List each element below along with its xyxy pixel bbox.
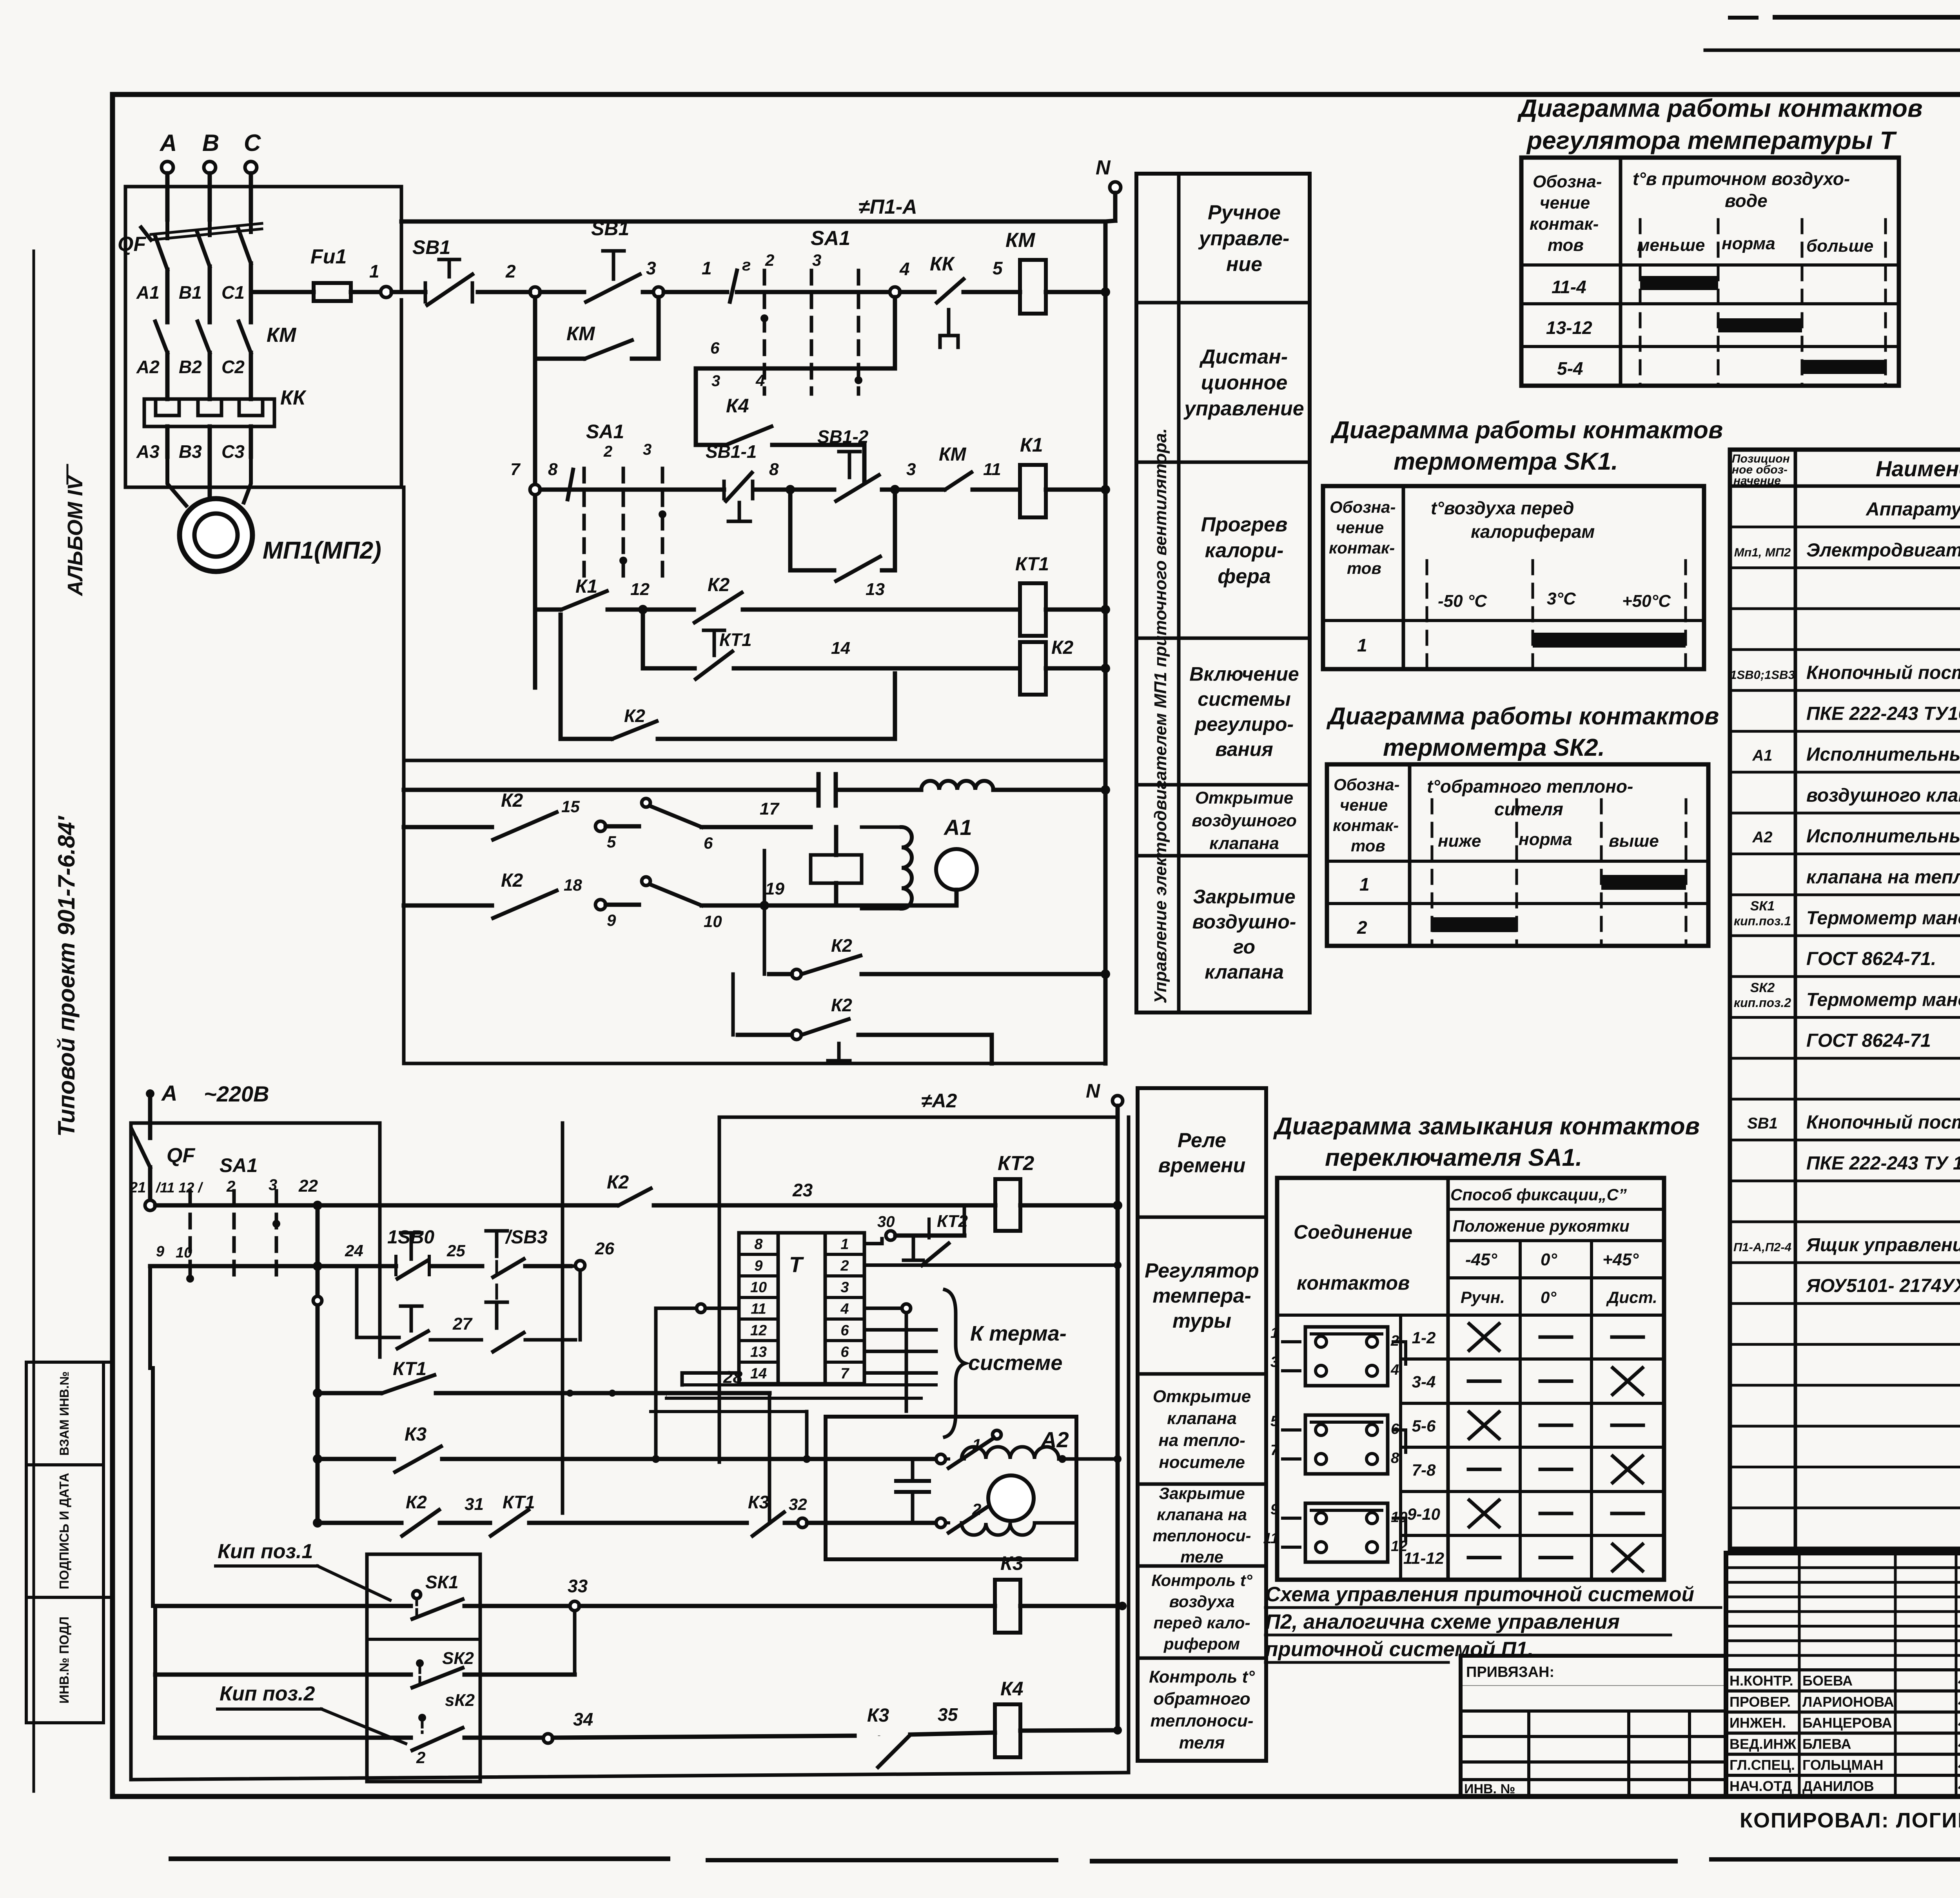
svg-text:35: 35 [938,1704,958,1725]
svg-text:9: 9 [607,911,616,929]
svg-text:В3: В3 [179,441,202,462]
selector SA1 closing diagram table [1277,1178,1664,1580]
svg-text:≠П1-А: ≠П1-А [858,196,917,218]
svg-text:4: 4 [899,259,910,279]
svg-text:норма: норма [1519,830,1572,849]
svg-text:К3: К3 [1000,1552,1024,1574]
svg-text:В1: В1 [179,282,202,303]
svg-text:г: г [742,256,751,274]
svg-text:Диаграмма работы контактов: Диаграмма работы контактов [1326,703,1719,730]
svg-text:К1: К1 [575,576,597,597]
svg-text:22: 22 [298,1176,318,1196]
svg-text:28: 28 [723,1368,742,1387]
svg-text:Электродвигатель 4А100LВ6; 2,2: Электродвигатель 4А100LВ6; 2,2 КВТ,~380В [1806,540,1960,561]
contact diagram table T [1521,158,1899,386]
A2 capacitor [896,1479,929,1483]
svg-text:вания: вания [1215,739,1273,760]
contact diagram table SK1 [1323,486,1704,669]
svg-text:К4: К4 [726,395,749,417]
svg-text:теплоноси-: теплоноси- [1152,1526,1251,1545]
wire rung1 to SA1 [664,290,727,294]
svg-text:26: 26 [595,1239,614,1258]
wire 19 drop [763,851,766,905]
svg-text:3: 3 [711,372,720,390]
svg-text:калориферам: калориферам [1471,521,1595,542]
temperature regulator T [739,1233,778,1384]
svg-text:Контроль t°: Контроль t° [1151,1571,1253,1590]
node 3a junction [890,485,900,494]
svg-text:SВ1: SВ1 [412,236,450,258]
svg-text:регулятора температуры Т: регулятора температуры Т [1526,126,1897,154]
power circuit enclosure [125,187,401,487]
svg-text:15: 15 [561,797,580,816]
svg-text:кип.поз.2: кип.поз.2 [1734,996,1791,1010]
svg-text:3: 3 [840,1279,849,1296]
svg-text:ЯОУ5101- 2174УХЛ4: ЯОУ5101- 2174УХЛ4 [1806,1276,1960,1296]
svg-text:контак-: контак- [1530,214,1599,234]
svg-text:теплоноси-: теплоноси- [1150,1711,1253,1730]
svg-text:3-4: 3-4 [1412,1373,1436,1391]
svg-text:К2: К2 [708,575,730,595]
svg-text:чение: чение [1540,193,1590,212]
svg-text:БАНЦЕРОВА: БАНЦЕРОВА [1802,1715,1892,1731]
svg-text:13: 13 [750,1344,767,1361]
svg-text:2: 2 [1390,1333,1399,1349]
svg-text:/SВ3: /SВ3 [505,1227,548,1248]
svg-text:Дистан-: Дистан- [1199,346,1288,368]
svg-text:больше: больше [1806,236,1873,256]
function table upper [1136,174,1310,1013]
svg-text:ДАНИЛОВ: ДАНИЛОВ [1802,1778,1874,1794]
svg-text:носителе: носителе [1159,1453,1245,1472]
neutral terminal N lower [1112,1096,1123,1106]
node 4 [890,287,900,297]
svg-text:9: 9 [1270,1501,1279,1518]
svg-text:1SВ0;1SВ3: 1SВ0;1SВ3 [1730,668,1795,682]
svg-text:N: N [1096,156,1111,179]
svg-text:34: 34 [573,1709,593,1729]
svg-text:А3: А3 [136,441,160,462]
svg-text:2: 2 [840,1258,849,1274]
node 2 [530,287,540,297]
actuator electromagnet arcs [902,827,912,909]
enclosure A2 top [719,1116,1118,1119]
svg-text:QF: QF [118,233,146,256]
svg-text:/11 12 /: /11 12 / [155,1179,203,1196]
svg-text:выше: выше [1609,831,1659,851]
node 34 [543,1734,553,1743]
svg-text:А: А [159,130,177,156]
svg-text:клапана: клапана [1209,834,1279,853]
svg-text:32: 32 [789,1495,807,1513]
svg-text:Кнопочный пост управления: Кнопочный пост управления [1806,662,1960,683]
svg-text:Типовой проект 901-7-6.84′: Типовой проект 901-7-6.84′ [53,815,80,1137]
svg-text:9-10: 9-10 [1407,1505,1440,1523]
node 5 lower [595,821,606,831]
svg-text:К2: К2 [406,1492,427,1512]
svg-text:перед кало-: перед кало- [1153,1613,1250,1632]
svg-text:t°обратного теплоно-: t°обратного теплоно- [1427,776,1633,797]
svg-text:П1-А,П2-4: П1-А,П2-4 [1733,1240,1791,1254]
svg-text:2: 2 [1357,917,1367,938]
contact diagram table SK2 [1327,764,1708,946]
svg-text:2: 2 [603,443,612,460]
svg-text:чение: чение [1336,518,1384,537]
svg-text:Прогрев: Прогрев [1201,514,1288,536]
svg-text:1: 1 [840,1236,849,1253]
svg-text:ПОДПИСЬ И ДАТА: ПОДПИСЬ И ДАТА [57,1473,71,1589]
svg-text:К3: К3 [867,1705,889,1726]
svg-text:6: 6 [1391,1421,1399,1437]
svg-text:КТ2: КТ2 [998,1152,1034,1175]
svg-text:контактов: контактов [1297,1272,1410,1294]
svg-text:ГОСТ 8624-71: ГОСТ 8624-71 [1806,1031,1931,1051]
thermometer box SK [367,1554,480,1782]
time contact KT2 [886,1231,895,1240]
svg-text:12: 12 [750,1323,767,1339]
svg-text:КМ: КМ [1005,229,1036,252]
svg-text:8: 8 [769,460,779,479]
svg-text:1: 1 [1270,1325,1279,1341]
left rail upper ladder [533,359,537,688]
svg-text:К2: К2 [501,790,523,811]
svg-text:фера: фера [1218,565,1271,588]
svg-text:контак-: контак- [1329,539,1395,557]
svg-text:термометра SK1.: термометра SK1. [1394,448,1618,475]
svg-text:Исполнительный механизм: Исполнительный механизм [1806,744,1960,765]
svg-text:ниже: ниже [1438,831,1481,851]
svg-text:+45°: +45° [1602,1250,1639,1269]
svg-text:SК1: SК1 [425,1572,459,1592]
svg-text:А1: А1 [1752,747,1772,764]
svg-text:БОЕВА: БОЕВА [1802,1673,1853,1689]
svg-text:12: 12 [1391,1538,1407,1555]
svg-text:К4: К4 [1000,1678,1024,1700]
svg-text:6: 6 [840,1323,849,1339]
svg-text:К терма-: К терма- [970,1322,1067,1345]
svg-text:К2: К2 [831,995,852,1015]
svg-text:норма: норма [1722,234,1775,253]
svg-text:воздушного: воздушного [1192,811,1297,830]
svg-text:В2: В2 [179,357,202,377]
enclosure 1435 drop [561,1123,564,1513]
svg-text:ПКЕ 222-243 ТУ 16.526.217-78: ПКЕ 222-243 ТУ 16.526.217-78 [1806,1153,1960,1174]
function table lower [1138,1088,1266,1761]
svg-text:Исполнительный механизм: Исполнительный механизм [1806,826,1960,847]
svg-text:ИНЖЕН.: ИНЖЕН. [1730,1715,1786,1731]
svg-text:11-4: 11-4 [1552,277,1586,297]
selector SA1 upper dashed poles [763,270,766,394]
svg-text:БЛЕВА: БЛЕВА [1802,1736,1851,1752]
svg-text:КМ: КМ [267,324,297,347]
svg-text:Термометр манометрический ТПГ-: Термометр манометрический ТПГ-СК [1806,989,1960,1010]
terminal A 220V [146,1089,154,1098]
svg-text:7: 7 [1270,1442,1279,1459]
svg-text:2: 2 [416,1748,425,1767]
svg-text:го: го [1233,936,1255,958]
svg-text:Дист.: Дист. [1606,1288,1657,1306]
position relay box A1 [811,855,862,883]
svg-text:11-12: 11-12 [1403,1549,1444,1568]
svg-text:13: 13 [866,580,885,599]
svg-text:термометра SК2.: термометра SК2. [1383,734,1605,761]
bus2 buttons row [150,1264,396,1268]
svg-text:Соединение: Соединение [1294,1221,1412,1243]
svg-text:клапана: клапана [1167,1409,1237,1428]
svg-text:Кип поз.2: Кип поз.2 [220,1682,315,1705]
wire node12 down [641,615,645,668]
svg-text:3: 3 [906,460,916,479]
svg-text:КТ1: КТ1 [719,630,752,650]
svg-text:10: 10 [704,912,722,931]
node 22 junction [313,1201,322,1210]
rail 810 markers [313,1388,322,1398]
phase terminal B [204,161,216,173]
svg-text:калори-: калори- [1205,539,1284,562]
bypass row 27 contacts [355,1266,359,1337]
svg-text:К2: К2 [831,935,852,956]
relay coil K4 [995,1704,1020,1757]
bus1 220v [155,1203,617,1208]
svg-text:11: 11 [751,1301,766,1317]
svg-text:SА1: SА1 [811,227,850,250]
svg-text:Мп1, МП2: Мп1, МП2 [1734,545,1791,559]
svg-text:системы: системы [1198,688,1290,710]
svg-text:~220В: ~220В [204,1081,269,1106]
svg-text:Диаграмма замыкания контактов: Диаграмма замыкания контактов [1273,1113,1700,1140]
svg-text:КМ: КМ [566,323,595,345]
node 3 [653,287,664,297]
motor МП1(МП2) [180,499,252,572]
svg-text:Управление электродвигателем М: Управление электродвигателем МП1 приточн… [1151,428,1170,1004]
svg-text:5-4: 5-4 [1557,358,1583,379]
A2 changeover 2 [993,1495,1001,1504]
svg-text:12: 12 [630,580,650,599]
svg-text:3°С: 3°С [1547,589,1576,608]
svg-text:контак-: контак- [1333,816,1399,835]
svg-text:К3: К3 [405,1424,427,1445]
svg-text:t°воздуха перед: t°воздуха перед [1431,498,1574,518]
svg-text:10: 10 [1391,1509,1407,1526]
svg-text:чение: чение [1340,796,1388,814]
svg-text:19: 19 [765,879,784,898]
svg-text:тов: тов [1548,236,1584,255]
svg-text:воздушно-: воздушно- [1192,911,1296,933]
A2 supply top arcs [962,1457,964,1461]
title block [1726,1553,1960,1796]
svg-text:А2: А2 [136,357,160,377]
svg-text:обратного: обратного [1153,1689,1250,1708]
node 9 lower [595,900,606,910]
A2 changeover 1 [993,1430,1001,1439]
svg-text:П2, аналогична схеме управлени: П2, аналогична схеме управления [1265,1610,1620,1633]
scan bottom edge [169,1856,670,1861]
svg-text:МП1(МП2): МП1(МП2) [263,537,381,564]
svg-text:Ручное: Ручное [1208,201,1281,224]
brace to thermosystem [945,1290,965,1437]
svg-text:К2: К2 [607,1172,629,1193]
A2 wiring [874,1457,896,1461]
inventory stamp boxes [26,1362,103,1723]
svg-text:меньше: меньше [1637,236,1705,255]
svg-text:18: 18 [564,876,582,894]
svg-text:SК2: SК2 [442,1649,474,1668]
svg-text:С1: С1 [221,282,245,303]
svg-text:N: N [1086,1080,1100,1102]
svg-text:31: 31 [465,1495,484,1514]
svg-text:3: 3 [812,251,821,269]
page top border line [1705,49,1960,52]
svg-text:А1: А1 [943,815,972,840]
svg-text:Обозна-: Обозна- [1330,498,1396,516]
svg-text:Обозна-: Обозна- [1533,172,1602,191]
svg-text:С3: С3 [221,441,245,462]
svg-text:К2: К2 [1051,637,1074,658]
actuator lamp A1 [936,849,977,890]
svg-text:-50 °С: -50 °С [1438,592,1487,611]
svg-text:24: 24 [345,1241,363,1260]
svg-text:Fu1: Fu1 [310,245,347,268]
svg-text:8: 8 [754,1236,763,1253]
svg-text:17: 17 [760,799,780,818]
svg-text:ИНВ.№ ПОДЛ: ИНВ.№ ПОДЛ [57,1617,71,1704]
node 33 [570,1601,579,1611]
svg-text:10: 10 [750,1279,767,1296]
svg-text:14: 14 [831,639,850,658]
svg-text:5: 5 [993,258,1003,278]
T block wiring left [706,1306,739,1310]
svg-text:К2: К2 [501,870,523,891]
svg-text:ПКЕ 222-243 ТУ16-526-217-78: ПКЕ 222-243 ТУ16-526-217-78 [1806,703,1960,724]
svg-text:23: 23 [792,1180,813,1200]
svg-text:t°в приточном воздухо-: t°в приточном воздухо- [1633,169,1850,189]
svg-text:НАЧ.ОТД: НАЧ.ОТД [1730,1778,1792,1794]
svg-text:Положение рукоятки: Положение рукоятки [1453,1217,1630,1235]
svg-text:клапана на: клапана на [1157,1505,1247,1524]
time relay coil KT2 [995,1179,1020,1231]
svg-text:1: 1 [1359,874,1370,895]
svg-text:4: 4 [1390,1362,1399,1378]
svg-text:АЛЬБОМ IV: АЛЬБОМ IV [64,475,87,597]
phase terminal C [245,161,257,173]
svg-text:В: В [202,130,219,156]
relay coil K2 [1020,642,1046,695]
svg-text:Способ фиксации„С”: Способ фиксации„С” [1450,1185,1627,1204]
svg-text:25: 25 [446,1241,465,1260]
svg-text:1: 1 [702,258,712,278]
svg-text:Диаграмма работы контактов: Диаграмма работы контактов [1517,94,1923,122]
left rail lower [148,1266,152,1368]
svg-text:10: 10 [176,1245,192,1261]
svg-text:1-2: 1-2 [1412,1328,1436,1347]
svg-text:≠А2: ≠А2 [921,1090,957,1112]
svg-text:сителя: сителя [1494,799,1563,819]
svg-text:4: 4 [840,1301,849,1317]
svg-text:КМ: КМ [939,444,967,465]
node 21 terminal [145,1200,155,1210]
lower enclosure bottom [131,1773,1129,1780]
svg-text:+50°С: +50°С [1622,592,1671,611]
svg-text:воде: воде [1725,191,1768,211]
svg-text:13-12: 13-12 [1546,318,1592,338]
svg-text:ГЛ.СПЕЦ.: ГЛ.СПЕЦ. [1730,1757,1795,1773]
changeover contact upper A1 [642,798,650,807]
svg-text:управление: управление [1183,397,1304,420]
svg-text:ние: ние [1226,253,1262,276]
motor leads [167,457,186,506]
svg-text:5: 5 [607,833,616,851]
svg-text:ИНВ. №: ИНВ. № [1464,1782,1515,1796]
svg-text:8: 8 [1391,1450,1399,1466]
button bypass contact [788,495,793,570]
svg-text:КТ1: КТ1 [1015,554,1049,575]
svg-text:9: 9 [754,1258,762,1274]
svg-text:теле: теле [1180,1548,1223,1566]
svg-text:9: 9 [156,1243,164,1260]
svg-text:ГОСТ 8624-71.: ГОСТ 8624-71. [1806,949,1936,969]
svg-text:системе: системе [968,1351,1062,1375]
svg-text:воздуха: воздуха [1169,1592,1235,1611]
svg-text:6: 6 [710,339,720,357]
svg-text:1: 1 [369,261,379,281]
svg-text:на тепло-: на тепло- [1158,1431,1245,1450]
svg-text:Т: Т [789,1252,804,1277]
svg-text:начение: начение [1733,474,1781,487]
node 12 junction [638,605,648,614]
svg-text:рифером: рифером [1163,1635,1240,1653]
svg-text:SВ1-2: SВ1-2 [817,426,869,447]
svg-text:Контроль t°: Контроль t° [1149,1667,1255,1686]
svg-text:4: 4 [755,371,765,390]
svg-text:темпера-: темпера- [1152,1285,1251,1307]
svg-text:11: 11 [1263,1530,1279,1547]
svg-text:21: 21 [129,1179,146,1196]
svg-text:С: С [244,130,261,156]
svg-text:ПРИВЯЗАН:: ПРИВЯЗАН: [1466,1664,1554,1680]
svg-text:11: 11 [983,460,1001,479]
svg-text:Кнопочный пост управления: Кнопочный пост управления [1806,1112,1960,1133]
neutral rail upper [1103,221,1108,1063]
actuator block A2 [826,1417,1076,1559]
svg-text:Закрытие: Закрытие [1159,1484,1245,1502]
bus P1-A top [401,220,1105,224]
svg-text:Обозна-: Обозна- [1334,775,1399,794]
svg-text:Включение: Включение [1189,663,1299,685]
lower enclosure top [131,1121,380,1125]
wire node2 down [533,297,537,359]
wire connector circle [313,1296,322,1305]
svg-text:ВЕД.ИНЖ: ВЕД.ИНЖ [1730,1736,1797,1752]
svg-text:КТ1: КТ1 [393,1359,426,1379]
T block wiring right [864,1242,882,1245]
svg-text:SК1: SК1 [1750,899,1775,914]
svg-text:8: 8 [548,460,558,479]
svg-text:30: 30 [877,1213,895,1230]
svg-text:SА1: SА1 [220,1154,258,1176]
svg-text:-45°: -45° [1465,1250,1497,1269]
changeover contact lower A1 [642,877,650,885]
svg-text:Открытие: Открытие [1153,1387,1251,1406]
svg-text:А1: А1 [136,282,160,303]
svg-text:Термометр манометрический ТПГ-: Термометр манометрический ТПГ-СК [1806,908,1960,929]
svg-text:5-6: 5-6 [1412,1417,1436,1435]
svg-text:Аппаратура по месту.: Аппаратура по месту. [1866,499,1960,520]
svg-text:SА1: SА1 [586,421,624,443]
svg-text:sК2: sК2 [445,1691,475,1710]
thermo wires under block [682,1383,936,1386]
svg-text:Схема управления приточной сис: Схема управления приточной системой [1265,1583,1694,1606]
page left border line [33,251,35,1791]
